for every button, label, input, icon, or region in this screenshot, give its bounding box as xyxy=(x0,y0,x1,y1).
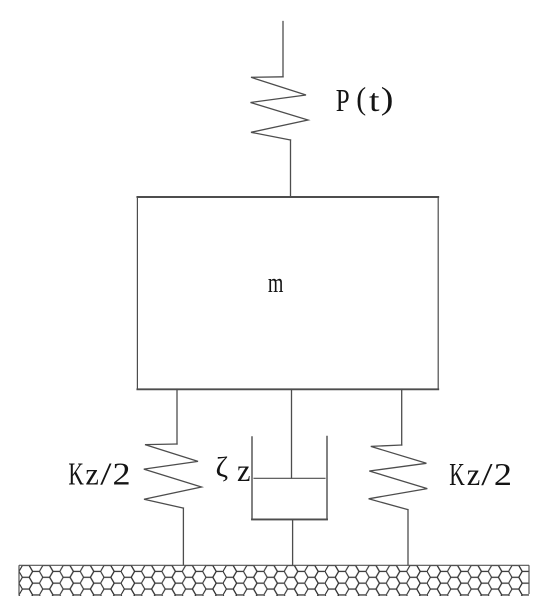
svg-text:z: z xyxy=(85,456,98,492)
label Kz/2 right xyxy=(449,456,512,492)
svg-text:z: z xyxy=(467,456,480,492)
svg-text:t: t xyxy=(369,83,380,119)
wire: damper to ground xyxy=(292,519,294,565)
svg-text:K: K xyxy=(449,457,465,492)
wire: mass bottom to right spring xyxy=(401,389,403,445)
label Kz/2 left xyxy=(68,456,130,492)
svg-text:2: 2 xyxy=(494,458,512,493)
svg-text:z: z xyxy=(237,452,250,488)
damper cylinder cup xyxy=(252,437,327,520)
svg-text:K: K xyxy=(68,456,84,491)
svg-text:P: P xyxy=(336,83,350,119)
svg-text:/: / xyxy=(100,456,112,492)
svg-text:ζ: ζ xyxy=(216,453,229,484)
wire: mass bottom to left spring xyxy=(176,389,178,444)
wire: top vertical lead xyxy=(282,22,284,77)
label zeta-z damper coefficient xyxy=(216,452,251,488)
svg-text:(: ( xyxy=(356,80,366,116)
wire: right spring to ground xyxy=(407,510,409,565)
wire: mass bottom to damper piston rod xyxy=(291,389,293,478)
svg-text:m: m xyxy=(268,268,284,299)
spring Kz/2 right zigzag xyxy=(369,445,428,510)
wire: spring to mass top xyxy=(290,140,292,197)
label P(t) xyxy=(336,80,394,119)
wire: left spring to ground xyxy=(182,508,184,565)
mass block m xyxy=(137,197,438,389)
damper piston plate xyxy=(254,477,325,479)
spring P(t) zigzag (excitation spring) xyxy=(251,77,309,140)
svg-text:2: 2 xyxy=(113,457,131,492)
spring Kz/2 left zigzag xyxy=(144,444,202,508)
svg-text:/: / xyxy=(481,456,493,492)
ground hatched band xyxy=(19,565,529,596)
svg-text:): ) xyxy=(381,81,394,116)
